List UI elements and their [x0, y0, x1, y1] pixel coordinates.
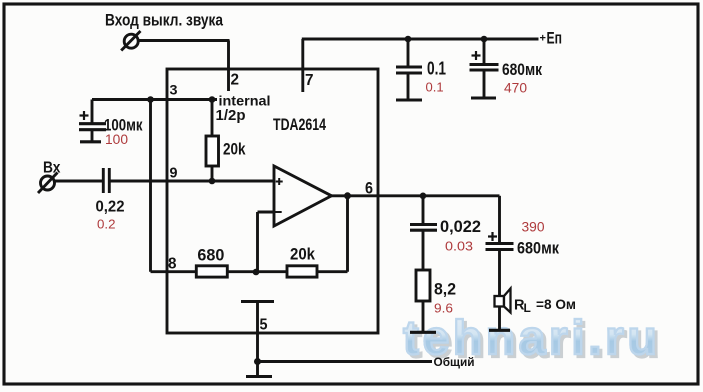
value 0.2 (red)	[97, 217, 116, 232]
pin 3 label	[170, 81, 178, 97]
capacitor C2 100мк plates	[79, 124, 106, 130]
wire node3 down to pin8	[151, 100, 197, 272]
svg-text:680: 680	[197, 246, 224, 265]
value 0,22	[96, 199, 125, 216]
svg-text:Eп: Eп	[547, 29, 563, 48]
svg-text:7: 7	[305, 72, 314, 89]
label internal	[219, 93, 271, 109]
value 8,2	[434, 281, 456, 299]
svg-text:5: 5	[260, 316, 268, 333]
svg-text:+: +	[540, 33, 546, 45]
watermark tehnari.ru	[406, 314, 663, 369]
ground bar of C2	[80, 140, 101, 143]
capacitor C3 0,1 leads	[407, 39, 410, 99]
svg-text:680мк: 680мк	[502, 60, 542, 79]
svg-text:3: 3	[170, 81, 178, 97]
net label +Ep	[540, 29, 563, 48]
svg-text:8,2: 8,2	[434, 281, 456, 299]
value 390 (red)	[522, 220, 545, 235]
capacitor C5 0,022 leads	[422, 196, 425, 270]
op-amp - input mark	[275, 211, 282, 213]
resistor R1 20k (internal vertical) leads	[211, 100, 214, 182]
svg-text:TDA2614: TDA2614	[273, 116, 327, 134]
polarity + of C4	[472, 51, 481, 60]
polarity + of C6	[488, 232, 497, 241]
op-amp + input mark	[276, 178, 283, 185]
op-amp A1	[274, 166, 332, 226]
wire common rail	[258, 360, 433, 363]
pin 2 label	[231, 72, 240, 89]
connector X1 input	[38, 173, 58, 194]
ground bar pin5	[246, 375, 272, 378]
junction pin9 node	[209, 178, 216, 185]
wire node3 horizontal	[92, 98, 217, 101]
resistor R2 680 body	[196, 266, 227, 277]
polarity + of C2	[80, 111, 89, 120]
ground bar of C4	[471, 96, 496, 99]
pin 8 label	[168, 256, 177, 273]
capacitor C6 680мк plates	[486, 244, 514, 250]
svg-text:0.2: 0.2	[97, 217, 116, 232]
capacitor C1 0,22 plates	[103, 168, 109, 193]
wire +Ep power rail	[302, 38, 539, 41]
svg-text:0,22: 0,22	[96, 199, 125, 216]
IC U1 TDA2614 box	[167, 69, 378, 333]
capacitor C4 680мк leads	[483, 39, 486, 97]
resistor R4 8,2 body	[416, 270, 430, 301]
connector X2 mute input	[121, 31, 140, 51]
speaker BA1 cone	[504, 289, 511, 313]
junction output at zobel	[420, 193, 427, 200]
capacitor C6 680мк output leads	[498, 196, 501, 296]
svg-text:Вход выкл. звука: Вход выкл. звука	[105, 11, 223, 30]
label RL =8 Ом	[514, 296, 576, 315]
svg-text:8: 8	[168, 256, 177, 273]
ground bar of C3	[396, 98, 422, 101]
svg-text:20k: 20k	[290, 245, 315, 264]
junction pin5 ground node	[254, 358, 261, 365]
svg-text:100: 100	[105, 132, 128, 147]
capacitor C2 100мк leads	[91, 100, 94, 142]
wire R3 to output	[317, 196, 348, 272]
value 0.1 (red)	[426, 80, 444, 95]
junction feedback node	[253, 269, 260, 276]
svg-text:470: 470	[504, 81, 527, 96]
value 20k (feedback)	[290, 245, 315, 264]
value 0,1	[427, 58, 446, 79]
value 680мк	[502, 60, 542, 79]
net label Общий	[434, 355, 475, 369]
speaker BA1 square	[495, 296, 505, 307]
junction node3 right	[209, 96, 216, 103]
capacitor C4 680мк plates	[470, 65, 499, 71]
junction output at feedback	[344, 192, 351, 199]
wire speaker to ground	[498, 307, 501, 329]
svg-text:0.1: 0.1	[427, 58, 446, 79]
wire R4 to ground	[422, 301, 425, 331]
value 9.6 (red)	[434, 301, 453, 316]
value 0.03 (red)	[445, 239, 473, 254]
value 100мк	[104, 116, 143, 135]
capacitor C3 0,1 plates	[396, 67, 422, 73]
svg-text:=8 Ом: =8 Ом	[536, 296, 576, 312]
svg-text:2: 2	[231, 72, 240, 89]
junction rail at C4	[481, 36, 488, 43]
svg-text:0.03: 0.03	[445, 239, 473, 254]
pin 5 label	[260, 316, 268, 333]
value 20k (internal)	[223, 140, 246, 159]
resistor R3 20k body	[287, 266, 317, 277]
wire C1 to pin9 and op-amp	[110, 180, 275, 183]
svg-text:390: 390	[522, 220, 545, 235]
pin 6 label	[365, 180, 373, 198]
value 470 (red)	[504, 81, 527, 96]
svg-text:9.6: 9.6	[434, 301, 453, 316]
label TDA2614	[273, 116, 327, 134]
value 100 (red)	[105, 132, 128, 147]
wire mute to pin2	[139, 41, 230, 92]
svg-text:680мк: 680мк	[517, 239, 559, 258]
capacitor C5 0,022 plates	[410, 225, 437, 231]
svg-text:L: L	[524, 301, 531, 315]
wire pin5 stem	[256, 302, 259, 376]
ground bar of speaker	[489, 329, 510, 332]
svg-text:20k: 20k	[223, 140, 246, 159]
label 1/2p	[216, 107, 246, 124]
svg-text:9: 9	[170, 165, 178, 181]
resistor R1 20k body	[206, 136, 219, 166]
wire input to C1	[55, 180, 103, 183]
value 680	[197, 246, 224, 265]
value 680мк output	[517, 239, 559, 258]
svg-text:Общий: Общий	[434, 355, 475, 369]
pin 9 label	[170, 165, 178, 181]
net label: Вход выкл. звука	[105, 11, 223, 30]
wire pin7 to rail	[301, 39, 304, 92]
svg-text:0.1: 0.1	[426, 80, 444, 95]
wire output pin6	[330, 194, 500, 197]
junction node3 left	[147, 96, 154, 103]
value 0,022	[440, 217, 481, 236]
svg-text:0,022: 0,022	[440, 217, 481, 236]
junction rail at C3	[405, 36, 412, 43]
ground bar of R4	[410, 331, 436, 334]
pin 7 label	[305, 72, 314, 89]
svg-text:1/2p: 1/2p	[216, 107, 246, 124]
wire minus input feedback	[258, 212, 275, 273]
net label Вх	[43, 160, 61, 177]
wire R2 to R3	[227, 270, 288, 273]
internal pin5 tap bar	[241, 300, 274, 303]
